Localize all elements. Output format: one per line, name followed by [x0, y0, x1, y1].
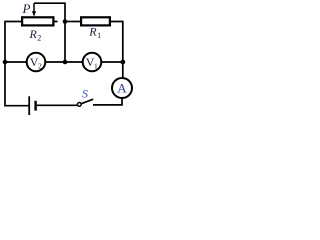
wire: junction to R1 [65, 21, 81, 23]
wire: ammeter bottom to bottom-right corner to switch [93, 98, 122, 105]
svg-text:1: 1 [94, 62, 98, 71]
svg-text:R: R [88, 25, 97, 39]
battery short plate (negative) [34, 101, 36, 111]
wire: V1 right to right vertical [101, 61, 123, 63]
resistor R1 body [81, 17, 110, 25]
background [0, 0, 134, 120]
potentiometer R2 body [22, 17, 53, 25]
ammeter A [112, 78, 132, 98]
slider arrow of potentiometer [33, 3, 35, 12]
switch hinge circle [77, 103, 81, 107]
wire: left vertical from top-left corner down to battery corner [5, 22, 29, 106]
wire: battery to switch [37, 104, 78, 106]
svg-text:A: A [117, 80, 127, 95]
wire: voltmeter row left segment [5, 61, 27, 63]
svg-text:S: S [82, 87, 88, 101]
svg-text:R: R [29, 27, 38, 41]
battery long plate (positive) [28, 96, 30, 115]
node junction dot at (65,62) [63, 60, 68, 65]
wire: R1 right to top-right corner and down right side [111, 22, 123, 79]
voltmeter V2 [27, 53, 46, 72]
voltmeter V1 [83, 53, 102, 72]
switch S blade [81, 99, 93, 104]
wire: slider top wire and vertical branch x=65 [34, 3, 65, 62]
node junction dot at (5,62) [3, 60, 8, 65]
svg-text:1: 1 [97, 31, 101, 40]
svg-text:2: 2 [37, 33, 41, 42]
wire: between V2 and V1 [45, 61, 82, 63]
svg-text:2: 2 [38, 62, 42, 71]
wire: pot right unconnected stub [54, 21, 57, 23]
svg-text:P: P [22, 1, 31, 16]
node junction dot at (65,21.5) [63, 19, 68, 24]
node junction dot at (122.8,62) [120, 60, 125, 65]
